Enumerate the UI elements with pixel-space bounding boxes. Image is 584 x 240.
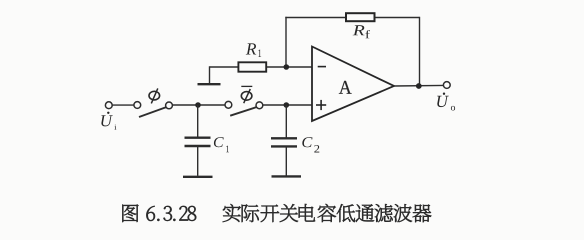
terminal Ui circle bbox=[105, 102, 112, 109]
ground G3 bar bbox=[272, 175, 302, 177]
switch S1 right contact bbox=[166, 102, 173, 109]
label Ui bbox=[101, 112, 116, 130]
op-amp plus sign bbox=[316, 104, 326, 106]
wire: input to switch1 bbox=[113, 104, 134, 106]
terminal Uo circle bbox=[443, 82, 450, 89]
capacitor C1 plates bbox=[185, 136, 211, 138]
node A junction dot bbox=[195, 102, 201, 108]
wire: inverting input line bbox=[210, 66, 313, 68]
node B junction dot bbox=[284, 102, 290, 108]
switch S2 left contact bbox=[225, 101, 232, 108]
switch S2 right contact bbox=[256, 102, 263, 109]
wire: feedback left vertical bbox=[285, 17, 287, 67]
wire: switch2 to noninverting input bbox=[263, 104, 312, 106]
wire: feedback right vertical bbox=[419, 17, 421, 86]
label phi bbox=[149, 88, 160, 103]
switch S1 left contact bbox=[134, 102, 141, 109]
caption 图6.3.28 实际开关电容低通滤波器 bbox=[122, 204, 431, 222]
ground G1 stem bbox=[209, 66, 211, 83]
wire: output bbox=[394, 84, 443, 87]
wire: switch1 to node A bbox=[172, 104, 225, 106]
label C1 bbox=[214, 137, 229, 152]
node: junction dot inverting input / feedback bbox=[284, 64, 290, 70]
resistor Rf bbox=[346, 13, 375, 21]
label Uo bbox=[437, 93, 455, 111]
ground G2 bar bbox=[183, 176, 213, 178]
capacitor C2 bottom stem bbox=[285, 147, 287, 176]
node: output junction dot bbox=[416, 83, 422, 89]
resistor R1 bbox=[238, 62, 266, 71]
label Rf bbox=[353, 25, 370, 38]
label A bbox=[339, 81, 352, 94]
op-amp minus sign bbox=[318, 66, 326, 68]
label C2 bbox=[302, 137, 319, 152]
switch S2 arm bbox=[230, 107, 257, 116]
switch S1 arm bbox=[139, 107, 166, 117]
capacitor C1 bottom stem bbox=[197, 147, 199, 176]
ground G1 bar bbox=[198, 83, 221, 85]
capacitor C2 plates bbox=[271, 137, 297, 139]
label R1 bbox=[246, 43, 261, 57]
label phi-bar bbox=[241, 86, 252, 103]
op-amp U1 triangle bbox=[312, 47, 394, 122]
wire: feedback top horizontal bbox=[285, 17, 419, 19]
capacitor C1 top stem bbox=[197, 105, 199, 137]
capacitor C2 top stem bbox=[285, 105, 287, 138]
